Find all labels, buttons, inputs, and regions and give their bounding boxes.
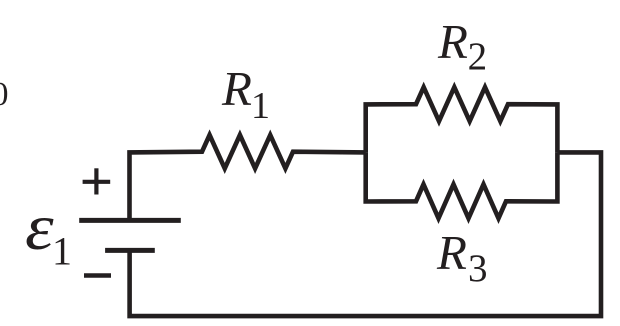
svg-text:0: 0 xyxy=(0,76,9,113)
svg-text:R: R xyxy=(221,61,252,116)
svg-text:1: 1 xyxy=(251,85,270,127)
svg-text:ε: ε xyxy=(25,191,54,264)
svg-text:2: 2 xyxy=(468,35,488,78)
svg-text:3: 3 xyxy=(468,247,488,290)
svg-text:1: 1 xyxy=(52,228,72,273)
svg-text:R: R xyxy=(437,14,468,69)
svg-text:R: R xyxy=(436,225,467,280)
